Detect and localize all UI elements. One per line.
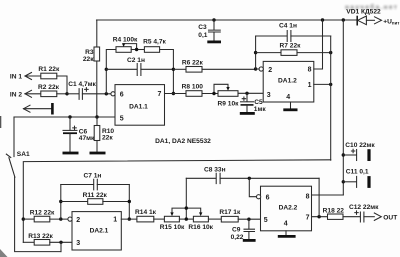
op-amp DA2.1 <box>68 212 121 250</box>
svg-text:47мк: 47мк <box>79 135 95 142</box>
wire SA1 return riser <box>60 242 62 251</box>
svg-text:1: 1 <box>113 217 117 224</box>
resistor R11 22к <box>61 192 130 205</box>
wire DA2.2 pin8 to supply column <box>312 194 344 196</box>
wire DA2.2 pin4 to ground <box>285 231 287 236</box>
ground for C9 <box>243 239 256 242</box>
wire C7/R11 right vertical <box>128 185 130 220</box>
capacitor C3 0,1 <box>198 20 220 41</box>
watermark blur top right <box>345 3 398 11</box>
svg-text:IN 2: IN 2 <box>10 91 22 98</box>
wiper bracket R15/R16 <box>170 208 202 216</box>
svg-text:3: 3 <box>76 240 80 247</box>
node junction R4 wiper/R5 <box>135 48 138 51</box>
svg-text:0,22: 0,22 <box>231 234 244 241</box>
diode VD1 КД522 <box>346 9 400 26</box>
svg-text:DA1, DA2 NE5532: DA1, DA2 NE5532 <box>155 138 211 145</box>
svg-text:R12 22к: R12 22к <box>30 210 55 217</box>
node junction C10 tap <box>342 153 345 156</box>
node junction C2/R6 on output column <box>172 68 175 71</box>
resistor R14 1к <box>135 209 164 222</box>
node junction R7 left <box>254 51 257 54</box>
wire DA2.1 pin1 output <box>121 218 137 220</box>
resistor R12 22к <box>23 210 68 222</box>
op-amp DA1.2 <box>259 61 314 102</box>
wire DA1.2 pin1 output <box>314 83 331 85</box>
svg-text:4: 4 <box>286 94 290 101</box>
resistor R5 4,7к <box>143 38 166 52</box>
wire feedback/output column down to lower rail <box>330 36 332 160</box>
node OUT connector <box>374 213 397 221</box>
svg-text:DA1.1: DA1.1 <box>129 104 148 111</box>
node junction pin6 column <box>105 92 108 95</box>
svg-text:R13 22к: R13 22к <box>28 233 53 240</box>
node junction right supply column on rail <box>342 18 345 21</box>
svg-text:C11 0,1: C11 0,1 <box>346 168 369 175</box>
svg-text:R15 10к: R15 10к <box>160 224 185 231</box>
svg-text:R9 10к: R9 10к <box>218 100 240 107</box>
ground for R10 <box>90 152 106 155</box>
wire DA1.1 pin7 output <box>165 93 187 95</box>
svg-text:2: 2 <box>268 67 272 74</box>
svg-text:R1 22к: R1 22к <box>38 66 60 73</box>
capacitor C6 47мк polarized <box>63 117 95 152</box>
resistor R13 22к <box>23 233 72 245</box>
wire R5 down to DA1.1 output column <box>160 50 174 94</box>
svg-text:1мк: 1мк <box>254 106 267 113</box>
node junction C9 tap <box>247 218 250 221</box>
wire DA2.2 pin7 output <box>312 216 328 218</box>
svg-text:SA1: SA1 <box>17 151 30 158</box>
svg-text:DA1.2: DA1.2 <box>278 78 297 85</box>
node junction R3-R10 divider tap <box>95 115 98 118</box>
wire R2 to C1 node <box>57 93 67 95</box>
svg-text:DA2.2: DA2.2 <box>279 205 298 212</box>
svg-text:C10 22мк: C10 22мк <box>345 142 375 149</box>
resistor R7 22к <box>256 43 331 56</box>
svg-text:R17 1к: R17 1к <box>219 209 241 216</box>
resistor R15 10к trimmer <box>160 216 194 231</box>
scan artifact left edge <box>0 116 2 128</box>
node shield connector arrow with bar <box>24 103 53 115</box>
op-amp DA2.2 <box>257 186 312 231</box>
svg-text:C12 22мк: C12 22мк <box>349 204 379 211</box>
svg-text:4: 4 <box>284 220 288 227</box>
node junction C3 on rail <box>212 18 215 21</box>
capacitor C9 0,22 <box>231 219 255 241</box>
svg-text:5: 5 <box>120 115 124 122</box>
svg-text:R18 22: R18 22 <box>323 207 345 214</box>
node junction wiper on main line <box>185 217 188 220</box>
svg-text:8: 8 <box>306 193 310 200</box>
svg-text:1: 1 <box>308 82 312 89</box>
resistor R6 22к <box>173 59 255 72</box>
resistor R4 100к trimmer <box>113 37 138 53</box>
wire DA1.2 pin8 to supply rail <box>314 20 323 69</box>
node IN 2 input connector <box>10 90 41 98</box>
svg-text:C9: C9 <box>232 226 241 233</box>
resistor R1 22к <box>38 66 60 79</box>
svg-text:R7 22к: R7 22к <box>280 43 302 50</box>
svg-text:R11 22к: R11 22к <box>83 192 108 199</box>
wire inverting input column (R4/C2 to pin6) <box>106 50 116 94</box>
wire feedback pin7 up to C8 line <box>318 178 320 216</box>
svg-text:OUT: OUT <box>383 214 397 221</box>
resistor R17 1к <box>219 209 260 222</box>
svg-text:R5 4,7к: R5 4,7к <box>143 38 166 45</box>
svg-text:C1 4,7мк: C1 4,7мк <box>68 81 96 88</box>
wire C4/R7 left vertical to pin2 <box>256 36 259 69</box>
node junction pin3 node DA2.1 / SA1 return <box>59 241 62 244</box>
capacitor C12 22мк <box>349 204 379 222</box>
capacitor C4 1н <box>256 22 331 41</box>
resistor R3 <box>94 47 100 61</box>
wire R3 top lead <box>96 20 98 47</box>
svg-text:7: 7 <box>306 214 310 221</box>
resistor R10 22к <box>94 117 114 152</box>
svg-text:R14 1к: R14 1к <box>135 209 157 216</box>
node junction pin7 feedback <box>317 215 320 218</box>
wire right supply column <box>342 20 344 195</box>
svg-text:C4 1н: C4 1н <box>279 22 297 29</box>
wire DA1.1 pin5 bias line <box>14 116 115 118</box>
resistor R2 22к <box>38 84 60 97</box>
svg-text:DA2.1: DA2.1 <box>90 227 109 234</box>
svg-text:0,1: 0,1 <box>198 32 207 39</box>
svg-text:IN 1: IN 1 <box>10 74 22 81</box>
wire R9 to DA1.2 pin3 <box>238 92 263 94</box>
capacitor C10 22мк polarized <box>343 142 375 161</box>
node junction C5 tap <box>245 92 248 95</box>
svg-text:3: 3 <box>267 92 271 99</box>
capacitor C11 0,1 <box>343 168 369 188</box>
node junction pin1/feedback column <box>329 83 332 86</box>
svg-text:R4 100к: R4 100к <box>113 37 138 44</box>
node junction pin2 node DA2.1 <box>59 217 62 220</box>
resistor R9 10к trimmer <box>214 84 239 107</box>
svg-text:C7 1н: C7 1н <box>83 173 101 180</box>
svg-text:6: 6 <box>120 91 124 98</box>
node junction wiper bracket <box>185 206 188 209</box>
node junction R1/R2 mix <box>65 92 68 95</box>
svg-text:7: 7 <box>158 91 162 98</box>
node junction R12 tap on left column <box>22 217 25 220</box>
ground for C5 <box>240 112 255 115</box>
svg-text:C3: C3 <box>198 24 207 31</box>
capacitor C1 4,7мк <box>67 81 111 99</box>
svg-text:R6 22к: R6 22к <box>182 59 204 66</box>
node junction C2 tap on column <box>105 68 108 71</box>
node junction R9 wiper <box>212 92 215 95</box>
switch SA1 <box>6 117 61 252</box>
capacitor C8 33н <box>186 166 319 183</box>
wire C7/R11 left vertical <box>60 185 62 220</box>
wire wiper column to C8 <box>185 178 187 219</box>
ground for C3 <box>207 41 221 44</box>
svg-text:R16 10к: R16 10к <box>188 224 213 231</box>
node junction pin1 DA2.1 <box>128 217 131 220</box>
scan artifact bottom left corner <box>0 249 8 257</box>
wire top supply rail <box>97 19 358 21</box>
capacitor C7 1н <box>61 173 130 190</box>
svg-text:22к: 22к <box>83 56 94 63</box>
capacitor C2 1н <box>106 57 173 76</box>
ground for DA2.2 pin4 <box>278 235 296 238</box>
node junction pin6 drop <box>248 177 251 180</box>
node junction C11 tap <box>342 180 345 183</box>
wire DA1.2 pin4 to ground <box>290 102 292 109</box>
op-amp DA1.1 <box>111 85 165 126</box>
resistor R8 100 <box>182 84 218 97</box>
svg-text:C8 33н: C8 33н <box>204 166 226 173</box>
svg-text:8: 8 <box>308 67 312 74</box>
node junction DA1.2 pin8 column on rail <box>321 18 324 21</box>
svg-text:6: 6 <box>266 195 270 202</box>
ground for DA1.2 pin4 <box>283 108 297 111</box>
node junction C6 tap <box>68 115 71 118</box>
svg-text:R2 22к: R2 22к <box>38 84 60 91</box>
wire R4 to R5 <box>131 49 144 51</box>
svg-text:+Uпит: +Uпит <box>383 18 400 25</box>
resistor R16 10к trimmer <box>188 216 221 231</box>
node junction R7 right <box>329 51 332 54</box>
svg-text:нaучeбa.нeт: нaучeбa.нeт <box>345 3 398 11</box>
node IN 1 input connector <box>10 73 41 81</box>
svg-text:R8 100: R8 100 <box>182 84 204 91</box>
svg-text:R3: R3 <box>85 49 94 56</box>
svg-text:5: 5 <box>264 217 268 224</box>
wire R1 to C1 node <box>57 76 67 94</box>
wire drop to DA2.2 pin6 <box>249 178 256 196</box>
svg-text:22к: 22к <box>102 134 113 141</box>
wire R3 bottom lead down to pin5 line <box>96 61 98 117</box>
wire R6 into pin2 node <box>254 67 257 70</box>
svg-text:C2 1н: C2 1н <box>127 57 145 64</box>
wire DA1.2 output rail to lower left <box>23 160 330 243</box>
capacitor C5 1мк polarized <box>241 93 267 113</box>
node junction R11 right <box>128 200 131 203</box>
node junction output column on pin7 line <box>172 92 175 95</box>
node junction R11 left <box>59 200 62 203</box>
svg-text:2: 2 <box>76 217 80 224</box>
resistor R18 22 <box>323 207 360 219</box>
ground for C6 <box>63 152 79 155</box>
